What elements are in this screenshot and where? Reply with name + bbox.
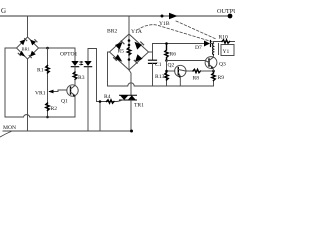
resistor R3 [73,72,76,80]
svg-text:R13: R13 [155,74,165,80]
wire R1 VR1 R2 chain vertical [47,48,49,117]
svg-text:Q2: Q2 [168,63,175,69]
resistor R2 [46,103,49,111]
junction dot R9 node [212,70,215,73]
diode BR2 top-right [135,42,143,50]
wire Q1 emitter down to mid-low rail [74,96,76,118]
svg-text:R2: R2 [51,106,58,112]
coupling dashed link Y1A to coil [137,25,213,42]
svg-text:R6: R6 [170,52,177,58]
wire gate R4 line [97,100,124,102]
svg-text:G: G [1,7,6,15]
diode BR1 top-left [20,39,26,45]
wire R8 to R9 node [201,70,214,72]
bridge rectifier BR1 diamond [17,37,39,59]
wire node down to Q2 base and R13 [166,61,168,87]
wire BR1 top vertex to top rail [27,16,29,37]
wire Q3 emitter down to R9 node [212,68,215,71]
transistor Q3 [205,57,217,69]
wire BR1 bottom vertex down to bottom rail [27,59,29,131]
LED opto emitter diode [71,61,78,66]
potentiometer VR1 wiper arrow [50,91,55,93]
junction dot R6 bottom node [165,59,168,62]
svg-text:OUTPUT: OUTPUT [217,8,235,15]
junction dots on R5 link [128,39,131,42]
diode BR2 bottom-right [135,54,143,62]
diode BR2 top-left [115,42,123,50]
triac TR1 [120,95,137,100]
wire opto LED branch down [74,48,76,61]
wire R5 center link [128,34,130,70]
relay Y1 label box [221,45,234,56]
svg-text:R5: R5 [118,49,125,55]
diode BR1 bottom-left [19,51,25,57]
wire BR2 bottom vertex to triac [129,70,131,95]
coupling dashed link Y1B to coil [176,21,216,39]
junction dot gate branch [99,100,102,103]
resistor R6 [165,44,168,61]
svg-text:R8: R8 [193,76,200,82]
svg-text:R9: R9 [218,75,225,81]
svg-text:BR2: BR2 [107,29,117,35]
node MON terminal leader [0,132,11,138]
wire BR2 right vertex to C1 node [149,51,153,53]
svg-text:R4: R4 [104,94,111,100]
wire mid rail y86 with hop [108,81,214,87]
wire Q2 emitter to mid rail [179,77,181,86]
wire top feed y43.5 to D7 [153,43,205,45]
wire BR1 right vertex to opto branch [39,47,76,49]
wire BR2 top vertex to top rail [128,16,130,34]
wire mid-low rail y117 with hop [5,115,75,117]
wire R3 to Q1 collector [74,80,76,86]
diode D7 [204,41,210,47]
opto light arrows [79,61,82,63]
junction dot at R1 chain top [46,47,49,50]
svg-text:D7: D7 [195,45,202,51]
diode BR2 bottom-left [115,54,123,62]
wire C1 bottom to mid rail [152,63,154,86]
wire C1 node vertical upper [152,44,154,61]
wire gate branch down to bottom rail [99,102,101,132]
svg-text:MON: MON [3,125,16,131]
wire node to Q3 base [167,60,206,62]
resistor R1 [46,66,49,74]
svg-text:C1: C1 [155,62,162,68]
wire Q2 collector to R8 [186,70,193,72]
wire bottom rail [3,130,132,132]
relay coil Y1 [211,43,214,45]
transistor Q2 [175,65,186,76]
wire triac MT1 down to bottom rail [130,100,132,131]
wire BR1 left vertex down left side [5,48,17,117]
resistor R13 [165,73,168,81]
diode BR1 top-right [30,40,36,46]
junction dot triac at bottom rail [130,130,133,133]
svg-text:Q1: Q1 [61,99,68,105]
junction dot Q2 base [165,70,168,73]
resistor R8 [193,69,201,72]
wire opto detector bottom to bottom rail [87,67,89,131]
wire Q2 base link [167,70,175,72]
svg-text:VR1: VR1 [35,91,46,97]
photodiode opto detector [84,61,91,66]
transistor Q1 [67,85,78,96]
diode BR1 bottom-right [30,51,36,57]
resistor R4 [107,100,115,103]
resistor R9 [212,71,215,81]
resistor R5 [127,48,130,56]
wire BR2 left vertex down to mid rail [108,52,110,86]
svg-text:R1: R1 [37,68,44,74]
wire R10 feed [214,42,236,44]
wire VR1 wiper to Q1 base [54,90,67,92]
capacitor C1 [149,60,157,63]
relay contact Y1B arrow on top rail [169,13,178,19]
wire opto detector top loop to gate line [88,49,97,102]
junction dot R2 chain at rail [46,116,49,119]
svg-text:TR1: TR1 [134,103,144,109]
wire Q3 collector up to coil [212,55,215,58]
junction dot on top rail [161,15,164,18]
wire top rail [0,15,230,17]
svg-text:Y1: Y1 [223,49,230,55]
wire LED cathode down to R3 [74,67,76,73]
svg-text:Q3: Q3 [219,62,226,68]
svg-text:Y1A: Y1A [131,29,142,35]
svg-text:BR1: BR1 [22,47,31,52]
junction dot R6 top [165,42,168,45]
node OUTPUT terminal dot [228,14,233,19]
svg-text:R10: R10 [219,35,229,41]
svg-text:R3: R3 [78,75,85,81]
bridge rectifier BR2 diamond [110,34,149,70]
resistor R10 [222,40,230,43]
